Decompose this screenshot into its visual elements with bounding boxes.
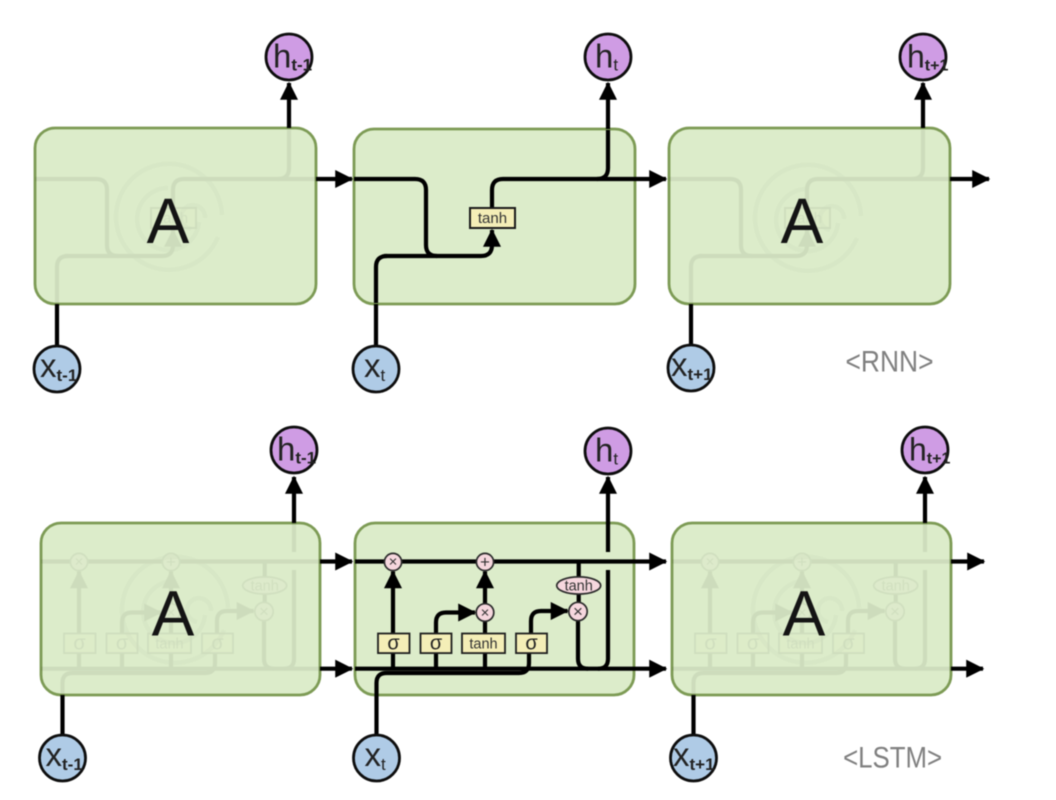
- svg-text:A: A: [147, 185, 190, 257]
- svg-text:<RNN>: <RNN>: [846, 346, 934, 379]
- svg-text:A: A: [781, 185, 824, 257]
- svg-text:A: A: [152, 578, 195, 650]
- svg-text:<LSTM>: <LSTM>: [843, 742, 942, 775]
- svg-text:A: A: [783, 578, 826, 650]
